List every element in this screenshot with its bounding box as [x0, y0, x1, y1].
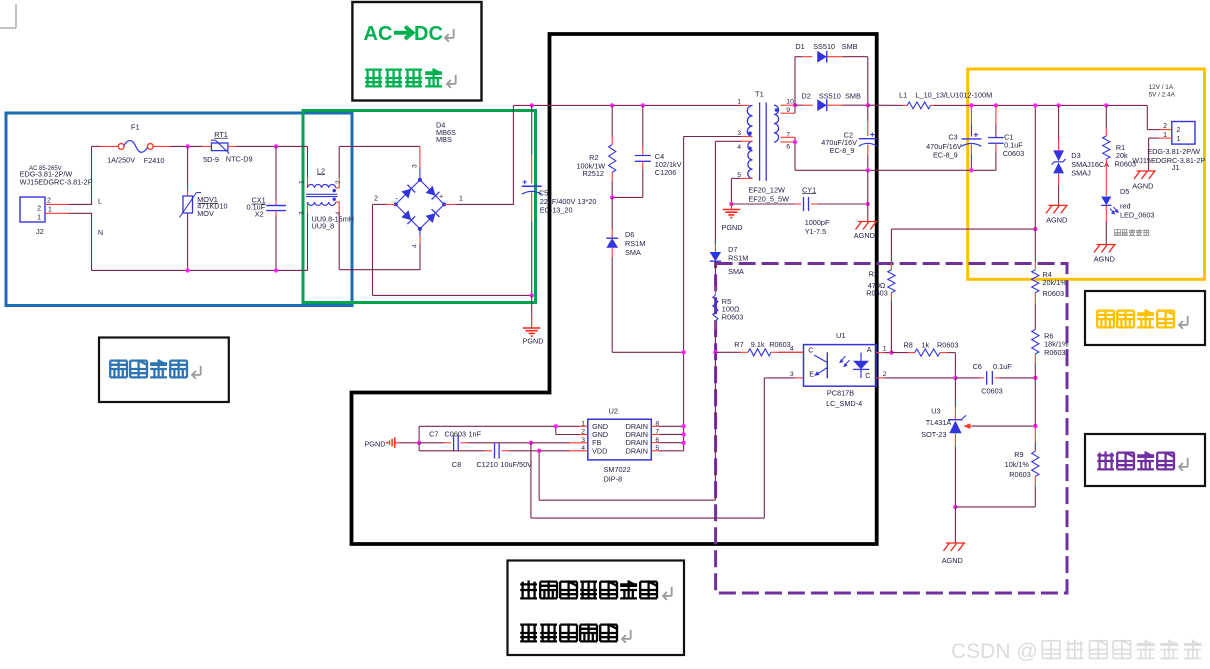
svg-text:F2410: F2410 [144, 156, 165, 165]
label: power indicator (Chinese) [1114, 229, 1120, 231]
wire: bridge pin1 to HV+ node [444, 203, 456, 205]
diode D1 [817, 51, 827, 63]
wire: L line to fuse F1 [92, 145, 101, 147]
node: D3 top [1056, 103, 1060, 107]
resistor R6 [1032, 329, 1039, 354]
svg-text:L_10_13/LU1012-100M: L_10_13/LU1012-100M [916, 91, 993, 100]
svg-text:SS510: SS510 [819, 92, 841, 101]
svg-text:J1: J1 [1172, 163, 1180, 172]
svg-text:R0603: R0603 [866, 289, 888, 298]
svg-text:1nF: 1nF [469, 429, 482, 438]
wire: RT1 to CX1 node and L2 [228, 145, 237, 147]
svg-text:1: 1 [459, 196, 463, 203]
node: pin1 rail junction [554, 424, 558, 428]
wire: VDD rail to U2 pin4 [539, 450, 570, 452]
node: VDD node (R5 bottom) [713, 350, 717, 354]
svg-text:1: 1 [883, 346, 887, 353]
optocoupler U1 PC817B [804, 345, 877, 387]
node: secondary+ (pins 10/9) [793, 103, 797, 107]
svg-text:F1: F1 [131, 123, 140, 132]
svg-text:2: 2 [1163, 123, 1167, 130]
connector J2 [20, 197, 45, 222]
svg-text:Y1-7.5: Y1-7.5 [805, 227, 827, 236]
svg-text:C1206: C1206 [655, 168, 677, 177]
svg-text:R0603: R0603 [1043, 289, 1065, 298]
svg-text:12V / 1A: 12V / 1A [1149, 84, 1174, 91]
node: drain pin junctions [681, 424, 685, 428]
wire: U2 drain pins to drain bus [651, 425, 660, 427]
node: sense tap [1033, 103, 1037, 107]
svg-text:2: 2 [883, 371, 887, 378]
svg-text:5D-9: 5D-9 [203, 155, 219, 164]
svg-text:PGND: PGND [722, 223, 743, 232]
svg-text:C0603: C0603 [445, 429, 467, 438]
svg-text:1k: 1k [921, 340, 929, 349]
svg-text:AGND: AGND [942, 556, 963, 565]
svg-text:TL431A: TL431A [926, 418, 952, 427]
svg-text:U1: U1 [836, 331, 846, 340]
svg-text:SOT-23: SOT-23 [921, 430, 946, 439]
svg-text:red: red [1120, 202, 1131, 211]
node: D1/D2 output junction [866, 103, 870, 107]
wire: D6 bottom to drain bus [612, 351, 683, 353]
wire: FB net down to optocoupler emitter [530, 443, 532, 518]
wire: T1 pin3 to drain bus [741, 136, 753, 138]
node: pin6 junction [793, 140, 797, 144]
svg-text:D2: D2 [802, 92, 811, 101]
svg-text:C1210: C1210 [476, 460, 498, 469]
wire: T1 pin5 to PGND [740, 177, 753, 179]
svg-text:R0603: R0603 [769, 340, 791, 349]
wire: J2 pin1 to N rail (bottom) [45, 212, 69, 214]
svg-text:PGND: PGND [523, 337, 544, 346]
node: drain/D6 junction [681, 350, 685, 354]
wire: U2 pin1/pin2 ground returns [579, 425, 588, 427]
svg-text:EC-8_9: EC-8_9 [830, 146, 855, 155]
node: R2/C4/D6 junction [610, 195, 614, 199]
capacitor C2 [867, 105, 869, 121]
node: C4 top [641, 103, 645, 107]
label box: input protection (blue text) [99, 338, 229, 403]
node: C3 bottom on rail [969, 168, 973, 172]
svg-text:LC_SMD-4: LC_SMD-4 [826, 399, 862, 408]
wire: J2 pin2 to L node [45, 203, 69, 205]
wire: divider to ref node [1034, 378, 1036, 426]
svg-text:C0603: C0603 [981, 386, 1003, 395]
wire: D1 branch [794, 57, 796, 105]
node: divider top junction [1033, 227, 1037, 231]
svg-text:10uF/50V: 10uF/50V [500, 460, 532, 469]
svg-text:D5: D5 [1120, 187, 1129, 196]
svg-text:C: C [808, 346, 813, 355]
svg-text:AGND: AGND [1094, 255, 1115, 264]
node: fuse/MOV junction [185, 144, 189, 148]
svg-text:SMA: SMA [625, 248, 641, 257]
svg-text:3: 3 [412, 164, 419, 168]
svg-text:EF20_12W: EF20_12W [748, 185, 785, 194]
wire: output sense vertical [1034, 105, 1036, 229]
svg-text:AC: AC [364, 23, 393, 45]
node: C5 bottom / minus rail junction [530, 293, 534, 297]
capacitor C6 [955, 377, 980, 379]
resistor R2 (clamp) [611, 105, 613, 137]
node: R3 bottom / R8 junction [889, 350, 893, 354]
svg-text:R0603: R0603 [937, 340, 959, 349]
svg-text:T1: T1 [755, 90, 764, 99]
svg-text:PC817B: PC817B [827, 389, 854, 398]
svg-text:2: 2 [335, 180, 342, 184]
svg-text:SMAJ: SMAJ [1071, 169, 1091, 178]
svg-text:DRAIN: DRAIN [626, 446, 648, 455]
svg-text:2: 2 [47, 198, 51, 205]
svg-text:SM7022: SM7022 [604, 465, 631, 474]
IC U2 SM7022 [588, 419, 652, 460]
svg-text:3: 3 [299, 211, 306, 215]
svg-text:R7: R7 [734, 340, 743, 349]
label box: output section (amber text) [1085, 291, 1205, 345]
inductor L1 [907, 102, 930, 109]
node: VDD rail junction [537, 449, 541, 453]
wire: VDD node down to VDD rail [714, 352, 716, 500]
node: C5 top [530, 103, 534, 107]
bridge diode (left-top edge) [401, 189, 411, 199]
ground AGND (TL431) [954, 507, 956, 543]
wire: N rail to L2 pin3 [307, 213, 309, 270]
wire: U1 pin2 to K node [876, 377, 884, 379]
bridge diode (right-top edge) [426, 186, 436, 196]
resistor R8 [891, 352, 908, 354]
wire: HV+ bus to transformer pin1 [532, 104, 741, 106]
svg-text:10k/1%: 10k/1% [1005, 460, 1030, 469]
svg-text:L1: L1 [899, 91, 907, 100]
svg-text:MBS: MBS [436, 135, 452, 144]
svg-text:C0603: C0603 [1003, 149, 1025, 158]
section box: bridge rectifier (green) [303, 111, 536, 303]
svg-text:1: 1 [37, 215, 41, 222]
svg-text:4: 4 [335, 211, 342, 215]
wire: T1 pin4 to D7 [741, 140, 753, 142]
wire: U1 pin4 stub [780, 351, 804, 353]
wire: PGND to C7 row (FB return) [395, 442, 401, 444]
node: K node junction [953, 376, 957, 380]
wire: J1 pin1 to AGND [1158, 137, 1172, 139]
node: R1 top [1104, 103, 1108, 107]
capacitor C1 [995, 105, 997, 125]
svg-text:C8: C8 [452, 460, 461, 469]
resistor R9 [1034, 426, 1036, 443]
section box: feedback (purple dashed) [716, 264, 1067, 594]
capacitor C3 [970, 105, 972, 125]
node: C1 top [994, 103, 998, 107]
wire: U1 pin1 to R3/R8 node [876, 352, 884, 354]
svg-text:UU9_8: UU9_8 [312, 222, 335, 231]
wire: L2 pin4 down to bridge AC (pin4) [336, 201, 340, 203]
node: CX1 top junction [274, 144, 278, 148]
resistor R1 [1105, 105, 1107, 128]
svg-text:WJ15EDGRC-3.81-2P: WJ15EDGRC-3.81-2P [20, 178, 93, 187]
svg-text:EDG-3.81-2P/W: EDG-3.81-2P/W [1147, 147, 1200, 156]
svg-text:SMB: SMB [845, 92, 861, 101]
svg-text:R0603: R0603 [722, 312, 744, 321]
svg-text:C6: C6 [973, 362, 982, 371]
node: PGND junction [417, 441, 421, 445]
thermistor RT1 [211, 143, 228, 151]
wire: fuse to RT1 [153, 145, 171, 147]
svg-text:L: L [98, 199, 102, 206]
node: C6 right junction [1033, 376, 1037, 380]
svg-text:3: 3 [790, 371, 794, 378]
svg-text:NTC-D9: NTC-D9 [226, 155, 253, 164]
capacitor C8 [418, 443, 420, 451]
label box: AC to DC full-bridge (green text) [352, 2, 481, 101]
capacitor C7 [419, 442, 444, 444]
svg-text:2: 2 [374, 196, 378, 203]
wire: T1 pin10/9 to rectifier node [781, 104, 796, 106]
svg-text:2: 2 [37, 206, 41, 213]
svg-text:1: 1 [48, 207, 52, 214]
svg-text:AGND: AGND [1132, 181, 1153, 190]
svg-text:RS1M: RS1M [728, 254, 748, 263]
svg-text:LED_0603: LED_0603 [1120, 210, 1155, 219]
svg-text:SMA: SMA [728, 267, 744, 276]
capacitor CX1 [275, 146, 277, 200]
svg-text:1A/250V: 1A/250V [107, 155, 135, 164]
svg-text:D6: D6 [625, 230, 634, 239]
svg-text:R8: R8 [904, 340, 913, 349]
svg-text:A: A [867, 345, 872, 354]
svg-text:EC-8_9: EC-8_9 [933, 150, 958, 159]
svg-text:EC-13_20: EC-13_20 [540, 205, 573, 214]
svg-text:D7: D7 [728, 245, 737, 254]
svg-text:2: 2 [1177, 127, 1181, 134]
svg-text:RT1: RT1 [214, 130, 228, 139]
svg-text:DIP-8: DIP-8 [604, 475, 623, 484]
node: R2 top [610, 103, 614, 107]
svg-text:PGND: PGND [364, 440, 385, 449]
svg-text:C: C [865, 371, 870, 380]
wire: L2 pin2 up to bridge AC (pin3) [336, 187, 340, 189]
diode D6 (clamp) [611, 197, 613, 229]
diode D7 [714, 244, 716, 253]
wire: bridge pin2 to minus rail [386, 203, 396, 205]
svg-text:AGND: AGND [854, 231, 875, 240]
capacitor C5 (bulk electrolytic) [531, 105, 533, 155]
wire: FB to U2 pin3 [531, 442, 570, 444]
resistor R4 [1034, 229, 1036, 262]
svg-text:-: - [395, 194, 398, 203]
svg-text:1000pF: 1000pF [805, 218, 830, 227]
bridge rectifier D4 [396, 180, 444, 229]
svg-text:RS1M: RS1M [625, 239, 645, 248]
bridge diode (right-bottom edge) [426, 213, 436, 223]
section box: input protection (blue) [6, 113, 352, 306]
svg-text:4: 4 [790, 346, 794, 353]
svg-text:N: N [98, 230, 103, 237]
wire: TL431 ref to divider [972, 425, 1035, 427]
LED D5 [1101, 197, 1111, 206]
svg-text:J2: J2 [36, 227, 44, 236]
svg-text:X2: X2 [255, 209, 264, 218]
resistor R7 [715, 351, 740, 353]
node: CX1 bottom junction [274, 268, 278, 272]
wire: secondary return rail [795, 169, 995, 171]
svg-text:5V / 2.4A: 5V / 2.4A [1149, 92, 1176, 99]
capacitor CY1 (Y-cap) [731, 203, 795, 205]
svg-text:R0603: R0603 [1009, 470, 1031, 479]
ground PGND (under C5) [531, 295, 533, 319]
node: C2 bottom on return rail [866, 168, 870, 172]
ground PGND (under T1 pin5) [730, 204, 732, 209]
svg-text:6: 6 [786, 144, 790, 151]
svg-text:AGND: AGND [1046, 216, 1067, 225]
section box: output (yellow) [968, 69, 1205, 279]
diode D2 [795, 104, 803, 106]
ground AGND (secondary) [867, 204, 869, 222]
node: C3 top [969, 103, 973, 107]
node: MOV bottom junction [185, 268, 189, 272]
svg-text:U3: U3 [931, 406, 940, 415]
svg-text:4: 4 [412, 244, 419, 248]
svg-text:10: 10 [786, 98, 794, 105]
common-mode choke L2 [308, 184, 336, 187]
connector J1 [1172, 122, 1195, 145]
ground AGND (J1) [1137, 170, 1156, 172]
svg-text:EF20_5_5W: EF20_5_5W [748, 195, 789, 204]
svg-text:U2: U2 [609, 407, 619, 416]
capacitor C4 (clamp) [642, 105, 644, 147]
bridge diode (left-bottom edge) [401, 210, 411, 220]
node: pin5/CY1/PGND junction [729, 202, 733, 206]
svg-text:0.1uF: 0.1uF [993, 362, 1012, 371]
svg-text:E: E [809, 369, 814, 378]
svg-text:R3: R3 [869, 270, 878, 279]
svg-text:1: 1 [1177, 136, 1181, 143]
shunt regulator U3 TL431A [954, 378, 956, 407]
svg-text:WJ15EDGRC-3.81-2P: WJ15EDGRC-3.81-2P [1132, 156, 1205, 165]
svg-text:D3: D3 [1071, 151, 1080, 160]
TVS diode D3 [1058, 105, 1060, 140]
resistor R3 [890, 229, 892, 262]
svg-text:SS510: SS510 [813, 42, 835, 51]
wire: L1 to output connector [935, 104, 1148, 106]
svg-text:CSDN @: CSDN @ [951, 640, 1038, 663]
wire: T1 pin7/6 to secondary return [781, 136, 796, 138]
svg-text:4: 4 [737, 144, 741, 151]
svg-text:MOV: MOV [197, 209, 214, 218]
svg-text:D1: D1 [795, 42, 804, 51]
svg-text:L2: L2 [317, 166, 325, 175]
svg-text:CY1: CY1 [802, 185, 816, 194]
node: CY1/AGND junction [866, 202, 870, 206]
page: top-left text-boundary corner mark [0, 4, 16, 28]
svg-text:1: 1 [299, 180, 306, 184]
varistor MOV1 [187, 146, 189, 191]
svg-text:R9: R9 [1014, 450, 1023, 459]
svg-text:9.1k: 9.1k [751, 340, 765, 349]
svg-text:VDD: VDD [592, 446, 607, 455]
svg-text:20k/1%: 20k/1% [1043, 278, 1068, 287]
ground AGND (D3) [1049, 204, 1068, 206]
fuse F1 [118, 144, 124, 150]
resistor R5 [714, 262, 716, 288]
label box: transformer core / circuit above (black text) [508, 561, 685, 656]
node: ref/divider junction [1033, 424, 1037, 428]
svg-text:R2512: R2512 [582, 169, 604, 178]
section box: transformer core (black, L-shaped) [352, 34, 877, 544]
wire: +V to L1 [868, 104, 903, 106]
svg-text:C3: C3 [948, 133, 957, 142]
svg-text:DC: DC [414, 23, 443, 45]
label box: feedback section (purple text) [1085, 434, 1205, 486]
wire: R3 top to output sense [891, 228, 1035, 230]
svg-text:+: + [439, 194, 443, 201]
svg-text:1: 1 [737, 99, 741, 106]
svg-text:SMB: SMB [842, 42, 858, 51]
node: R9/U3 anode junction [953, 505, 957, 509]
node: FB junction [529, 441, 533, 445]
svg-text:R0603: R0603 [1044, 348, 1066, 357]
ground AGND (D5) [1097, 244, 1116, 246]
svg-text:C7: C7 [429, 429, 438, 438]
